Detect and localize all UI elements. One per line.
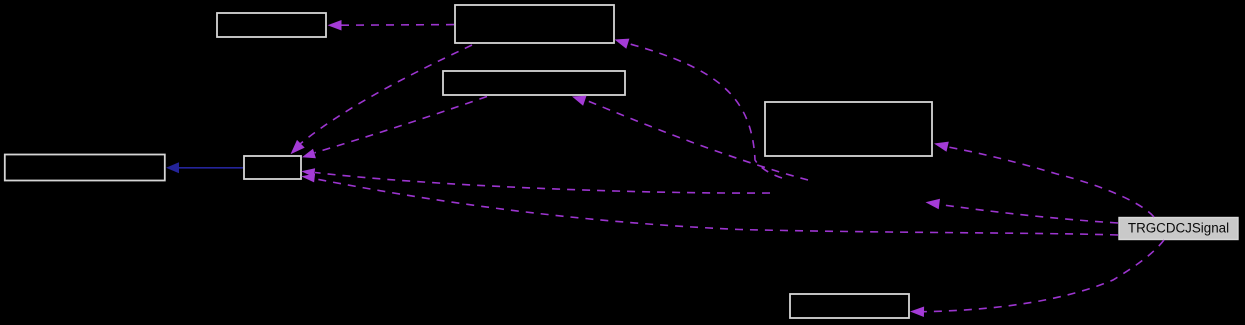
node box3 (second row, hidden label) — [443, 71, 625, 95]
node bottombox (bottom, hidden label) — [790, 294, 909, 318]
node TRGCDCJSignal (highlighted grey) — [1119, 218, 1238, 240]
edge box3->smallbox (dashed curve, arrow at smallbox right edge top) — [302, 97, 487, 159]
edge hiddenN->smallbox (dashed near-horizontal, arrow at smallbox right) — [301, 168, 770, 193]
node middlebox (right middle, hidden label) — [765, 102, 932, 156]
edge box2->box1 (dashed purple, arrow at box1 right edge) — [328, 20, 455, 31]
node leftbox (middle far-left, hidden label) — [5, 155, 165, 181]
node box2 (top-center, two-line hidden label) — [455, 5, 614, 43]
edge TRGCDCJSignal->hiddenN (dashed, floating arrowhead) — [926, 199, 1119, 223]
edge box2->smallbox (dashed curve, arrow at smallbox top-right) — [291, 45, 473, 154]
edge TRGCDCJSignal->bottombox (dashed swoop down, arrow at bottombox right) — [910, 240, 1164, 317]
edge hiddenN->box3 (dashed diagonal, arrow at box3 bottom) — [572, 96, 808, 180]
svg-text:TRGCDCJSignal: TRGCDCJSignal — [1128, 221, 1229, 236]
edge hiddenN->box2 (dashed curve up, arrow at box2 right edge) — [615, 39, 783, 178]
edge TRGCDCJSignal->smallbox (long dashed, arrow at smallbox right) — [301, 174, 1118, 236]
node box1 (top-left, hidden label) — [217, 13, 326, 37]
edge smallbox->leftbox (solid blue inheritance) — [166, 162, 243, 173]
node smallbox (middle, hidden label) — [244, 156, 301, 179]
edge TRGCDCJSignal->middlebox (dashed swoop, arrow at middlebox right edge) — [934, 142, 1154, 217]
